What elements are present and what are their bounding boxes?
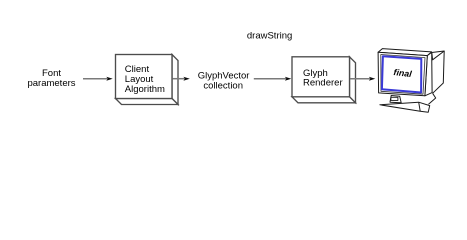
monitor front bezel xyxy=(378,52,427,96)
monitor right side face xyxy=(425,52,432,96)
screen with blue border xyxy=(382,56,421,92)
monitor top face xyxy=(378,49,432,56)
label Font parameters xyxy=(27,68,75,89)
svg-text:Algorithm: Algorithm xyxy=(125,84,165,95)
arrow from GlyphVector collection to Glyph Renderer box xyxy=(254,77,291,81)
monitor stand neck xyxy=(390,96,401,103)
tube bottom detail xyxy=(429,93,436,104)
box Glyph Renderer xyxy=(292,57,356,103)
svg-text:parameters: parameters xyxy=(27,78,75,89)
label drawString xyxy=(247,30,292,41)
label GlyphVector collection xyxy=(198,71,250,92)
box Client Layout Algorithm xyxy=(116,55,179,105)
arrow from box to GlyphVector collection xyxy=(173,77,190,81)
stand button xyxy=(391,97,398,100)
monitor base xyxy=(380,102,430,112)
svg-text:collection: collection xyxy=(203,80,243,91)
base fold line xyxy=(419,102,421,111)
monitor showing final rendered text xyxy=(378,49,444,113)
svg-text:drawString: drawString xyxy=(247,30,292,41)
bezel inner line xyxy=(381,55,425,95)
CRT tube top wedge xyxy=(432,51,444,60)
svg-text:Renderer: Renderer xyxy=(303,78,343,89)
CRT tube side xyxy=(433,51,445,93)
arrow from Font parameters to Client Layout Algorithm box xyxy=(83,77,113,81)
arrow from Glyph Renderer to monitor xyxy=(350,77,375,81)
svg-text:final: final xyxy=(393,67,413,79)
